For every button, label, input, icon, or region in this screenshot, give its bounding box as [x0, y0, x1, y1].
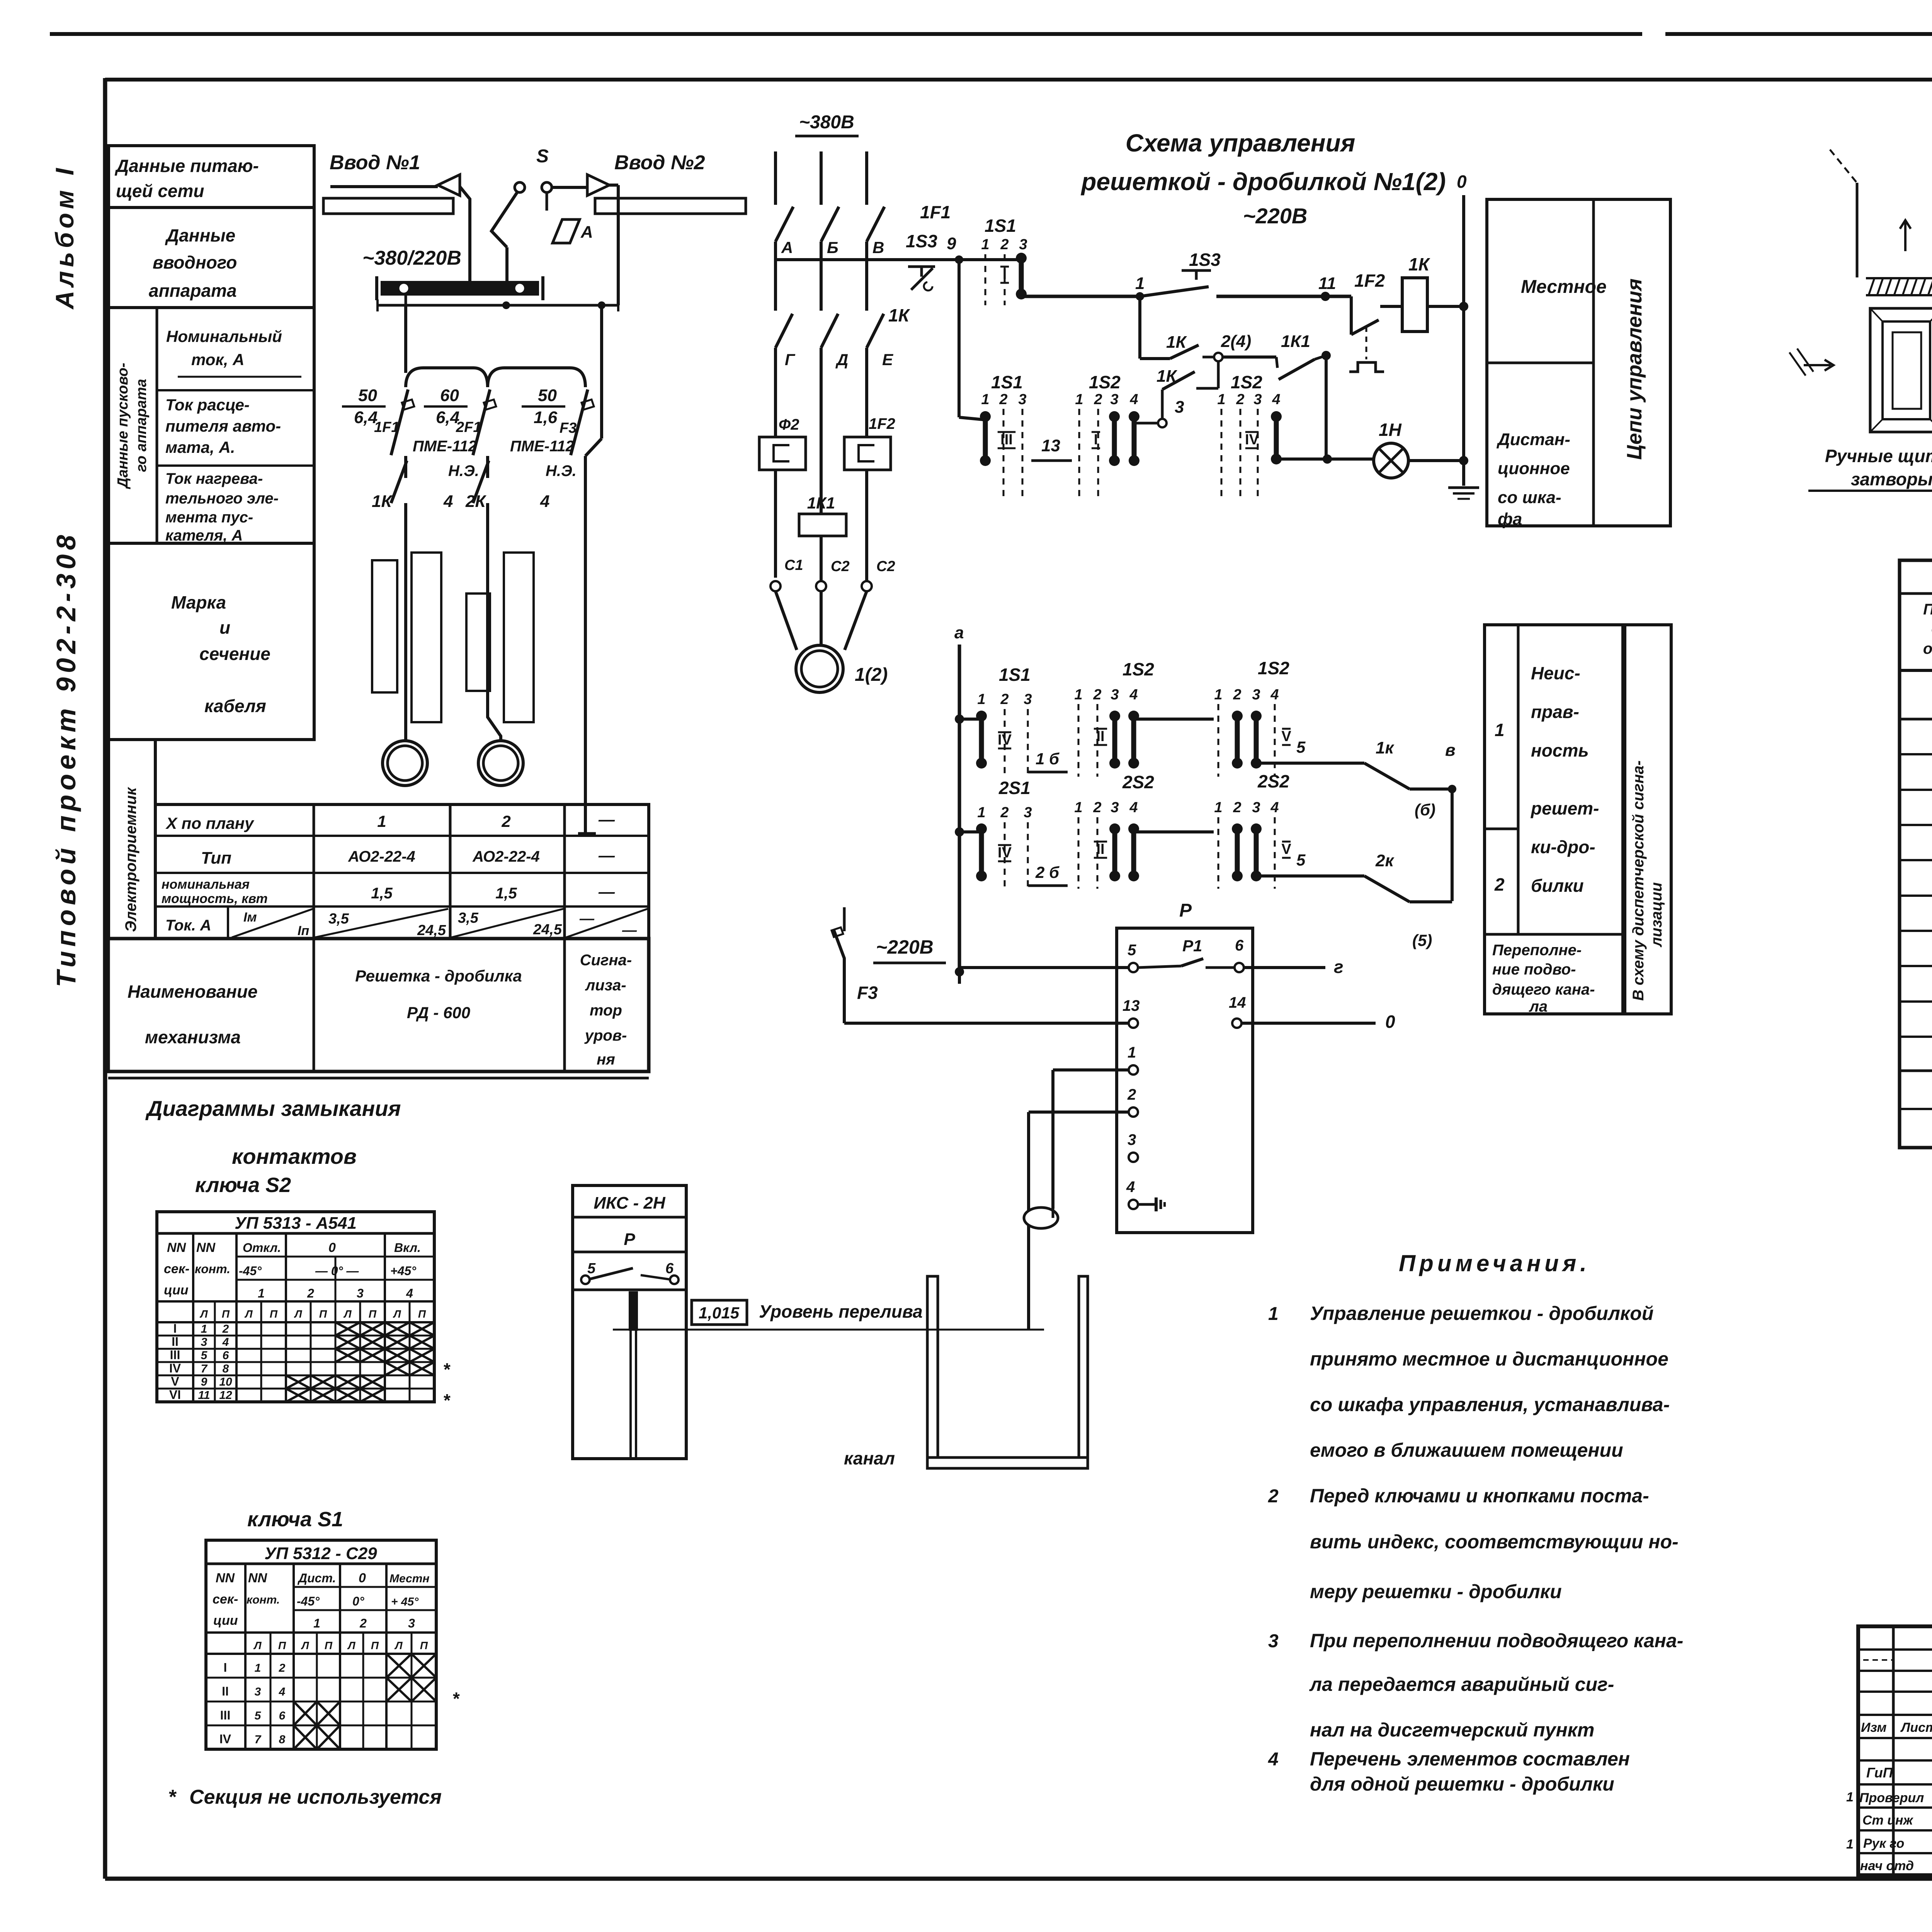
- svg-text:0: 0: [359, 1571, 366, 1585]
- svg-text:вить индекс, соответствующ: вить индекс, соответствующии но-: [1310, 1531, 1679, 1553]
- svg-text:3: 3: [1019, 236, 1027, 253]
- svg-text:3: 3: [255, 1685, 261, 1698]
- svg-text:4: 4: [1272, 391, 1280, 408]
- svg-text:1,5: 1,5: [371, 885, 393, 902]
- svg-text:ИКС - 2Н: ИКС - 2Н: [594, 1194, 665, 1213]
- svg-text:—: —: [598, 810, 615, 828]
- svg-text:Л: Л: [393, 1308, 401, 1320]
- svg-text:Наименование: Наименование: [128, 981, 258, 1002]
- svg-text:1: 1: [1268, 1304, 1279, 1324]
- svg-text:0°: 0°: [352, 1594, 364, 1608]
- svg-text:Л: Л: [244, 1308, 253, 1320]
- svg-text:3,5: 3,5: [458, 910, 479, 926]
- svg-text:-45°: -45°: [297, 1594, 320, 1608]
- svg-text:УП 5313 - А541: УП 5313 - А541: [235, 1214, 357, 1233]
- svg-text:РД - 600: РД - 600: [407, 1003, 470, 1022]
- svg-text:4: 4: [1270, 799, 1279, 816]
- svg-text:9: 9: [947, 234, 956, 253]
- svg-text:При переполнении подводяще: При переполнении подводящего кана-: [1310, 1630, 1683, 1651]
- svg-text:3: 3: [1253, 391, 1262, 408]
- svg-text:ционное: ционное: [1498, 459, 1570, 478]
- svg-text:I: I: [1003, 266, 1007, 282]
- svg-text:контактов: контактов: [232, 1144, 357, 1168]
- svg-text:10: 10: [219, 1376, 232, 1388]
- svg-text:конт.: конт.: [195, 1262, 230, 1276]
- svg-text:Е: Е: [882, 350, 894, 369]
- svg-text:4: 4: [540, 492, 549, 511]
- svg-text:ГиП: ГиП: [1866, 1765, 1893, 1781]
- svg-text:(б): (б): [1415, 801, 1435, 819]
- svg-text:6: 6: [1235, 937, 1244, 954]
- svg-text:NN: NN: [167, 1240, 187, 1255]
- svg-text:обознач: обознач: [1923, 640, 1932, 657]
- svg-text:1: 1: [258, 1286, 265, 1300]
- svg-text:3: 3: [1024, 804, 1032, 821]
- svg-text:8: 8: [223, 1362, 229, 1375]
- svg-text:3: 3: [1268, 1631, 1279, 1651]
- svg-text:II: II: [222, 1684, 229, 1698]
- svg-text:Д: Д: [835, 350, 848, 369]
- svg-text:АО2-22-4: АО2-22-4: [472, 848, 540, 865]
- svg-text:(5): (5): [1412, 931, 1432, 949]
- svg-text:*: *: [169, 1786, 177, 1808]
- svg-text:2(4): 2(4): [1221, 332, 1251, 351]
- svg-text:Рук го: Рук го: [1863, 1836, 1904, 1851]
- svg-text:Типовой проект 902-2-308: Типовой проект 902-2-308: [51, 531, 81, 987]
- svg-text:ла: ла: [1529, 998, 1548, 1015]
- svg-text:для одной решетки - дробил: для одной решетки - дробилки: [1310, 1773, 1614, 1795]
- svg-text:2: 2: [1268, 1486, 1279, 1507]
- svg-text:NN: NN: [216, 1571, 235, 1585]
- svg-text:1S2: 1S2: [1231, 372, 1262, 392]
- svg-text:1: 1: [977, 691, 985, 707]
- svg-text:С1: С1: [784, 557, 803, 573]
- svg-text:1К1: 1К1: [1281, 332, 1310, 351]
- svg-text:Ручные щитовые: Ручные щитовые: [1825, 446, 1932, 466]
- svg-text:канал: канал: [844, 1448, 895, 1468]
- svg-text:Н.Э.: Н.Э.: [546, 463, 577, 480]
- svg-text:ции: ции: [164, 1283, 189, 1298]
- svg-text:1: 1: [313, 1616, 320, 1630]
- svg-text:П: П: [222, 1308, 230, 1320]
- svg-text:2: 2: [279, 1662, 286, 1674]
- svg-text:*: *: [453, 1689, 460, 1709]
- svg-text:1S2: 1S2: [1122, 659, 1154, 679]
- svg-text:1: 1: [1128, 1044, 1136, 1061]
- svg-text:1F2: 1F2: [869, 415, 895, 432]
- svg-text:и: и: [219, 617, 230, 638]
- svg-text:II: II: [1096, 841, 1104, 857]
- svg-text:7: 7: [201, 1362, 208, 1375]
- svg-text:9: 9: [201, 1376, 207, 1388]
- svg-text:кателя, А: кателя, А: [165, 527, 243, 544]
- svg-text:2К: 2К: [465, 492, 486, 511]
- svg-text:сек-: сек-: [213, 1592, 238, 1607]
- svg-text:IV: IV: [998, 732, 1012, 748]
- svg-text:Ввод №1: Ввод №1: [330, 151, 420, 174]
- svg-text:ции: ции: [213, 1613, 238, 1628]
- svg-text:2S2: 2S2: [1122, 772, 1154, 792]
- svg-text:ла передается аварийный: ла передается аварийный сиг-: [1309, 1673, 1614, 1695]
- svg-text:1К: 1К: [1408, 254, 1430, 274]
- svg-text:Л: Л: [301, 1639, 309, 1651]
- svg-text:Неис-: Неис-: [1531, 663, 1580, 683]
- svg-text:V: V: [171, 1374, 179, 1388]
- svg-text:2: 2: [1094, 391, 1102, 408]
- svg-text:IV: IV: [169, 1361, 181, 1375]
- svg-text:2: 2: [501, 812, 510, 830]
- svg-text:фа: фа: [1498, 510, 1522, 529]
- svg-text:ПМЕ-112: ПМЕ-112: [413, 438, 477, 455]
- svg-text:F3: F3: [560, 420, 577, 436]
- svg-text:П: П: [418, 1308, 426, 1320]
- svg-text:Л: Л: [347, 1639, 355, 1651]
- svg-text:П: П: [270, 1308, 278, 1320]
- svg-text:А: А: [781, 238, 793, 257]
- svg-text:3: 3: [1110, 391, 1118, 408]
- svg-text:5: 5: [201, 1349, 208, 1362]
- svg-text:решет-: решет-: [1530, 798, 1599, 818]
- svg-text:5: 5: [1296, 738, 1306, 756]
- svg-text:50: 50: [538, 386, 557, 405]
- svg-text:Iм: Iм: [243, 910, 257, 925]
- svg-text:4: 4: [1268, 1749, 1279, 1770]
- svg-text:аппарата: аппарата: [149, 281, 237, 301]
- svg-text:Секция не используется: Секция не используется: [189, 1786, 442, 1808]
- svg-text:1,015: 1,015: [699, 1304, 740, 1322]
- svg-text:F3: F3: [857, 983, 878, 1003]
- svg-text:1К: 1К: [888, 305, 910, 325]
- svg-text:ня: ня: [597, 1051, 615, 1068]
- svg-text:1,6: 1,6: [534, 408, 558, 427]
- svg-text:а: а: [954, 623, 964, 642]
- svg-text:П: П: [278, 1639, 286, 1651]
- svg-text:2: 2: [1233, 799, 1241, 816]
- svg-text:2S2: 2S2: [1257, 771, 1289, 791]
- svg-text:1: 1: [981, 236, 989, 253]
- svg-text:~380/220В: ~380/220В: [362, 247, 461, 269]
- svg-text:Откл.: Откл.: [243, 1241, 281, 1255]
- svg-text:П: П: [371, 1639, 379, 1651]
- svg-text:нал на дисгетчерский пун: нал на дисгетчерский пункт: [1310, 1719, 1594, 1741]
- svg-text:ключа S1: ключа S1: [247, 1508, 343, 1531]
- svg-text:П: П: [369, 1308, 377, 1320]
- svg-text:Х по плану: Х по плану: [165, 814, 255, 832]
- svg-text:2: 2: [1000, 236, 1009, 253]
- svg-text:13: 13: [1041, 436, 1060, 455]
- svg-text:УП 5312 - С29: УП 5312 - С29: [264, 1544, 377, 1563]
- svg-text:IV: IV: [219, 1732, 231, 1746]
- svg-text:—: —: [622, 922, 637, 939]
- svg-text:1К: 1К: [1166, 333, 1187, 352]
- svg-text:го аппарата: го аппарата: [133, 379, 150, 472]
- svg-text:~220В: ~220В: [1243, 204, 1308, 228]
- svg-text:со шка-: со шка-: [1498, 488, 1561, 507]
- svg-text:4: 4: [1129, 687, 1138, 703]
- svg-text:— 0° —: — 0° —: [315, 1264, 359, 1278]
- svg-text:V: V: [1281, 728, 1291, 745]
- svg-text:мента пус-: мента пус-: [165, 509, 253, 526]
- svg-text:1S1: 1S1: [985, 216, 1016, 236]
- svg-text:3: 3: [201, 1336, 207, 1349]
- svg-text:1(2): 1(2): [855, 665, 888, 685]
- svg-text:2: 2: [1000, 691, 1009, 707]
- svg-text:Уровень перелива: Уровень перелива: [759, 1301, 923, 1321]
- svg-text:4: 4: [1126, 1179, 1135, 1196]
- svg-text:5: 5: [1128, 942, 1136, 959]
- svg-text:1F1: 1F1: [920, 202, 951, 222]
- svg-text:ключа S2: ключа S2: [195, 1173, 291, 1197]
- svg-text:принято местное и дистан: принято местное и дистанционное: [1310, 1348, 1668, 1370]
- svg-text:2: 2: [222, 1323, 229, 1335]
- svg-text:конт.: конт.: [247, 1594, 280, 1606]
- svg-text:5: 5: [1296, 851, 1306, 869]
- svg-text:Проверил: Проверил: [1859, 1791, 1924, 1805]
- svg-text:прав-: прав-: [1531, 702, 1579, 722]
- svg-text:60: 60: [440, 386, 459, 405]
- svg-text:дящего кана-: дящего кана-: [1492, 981, 1595, 998]
- svg-text:2: 2: [999, 391, 1007, 408]
- svg-text:С2: С2: [876, 558, 895, 575]
- svg-text:2: 2: [1093, 799, 1101, 816]
- svg-text:1S3: 1S3: [906, 231, 937, 251]
- svg-text:3: 3: [357, 1286, 364, 1300]
- svg-text:Л: Л: [394, 1639, 403, 1651]
- svg-text:ПМЕ-112: ПМЕ-112: [510, 438, 574, 455]
- svg-text:3,5: 3,5: [328, 911, 349, 927]
- svg-text:Данные пусково-: Данные пусково-: [115, 363, 131, 489]
- svg-text:—: —: [579, 911, 595, 927]
- svg-text:1F2: 1F2: [1354, 270, 1385, 291]
- svg-text:меру решетки - дробилки: меру решетки - дробилки: [1310, 1581, 1562, 1602]
- svg-text:Решетка - дробилка: Решетка - дробилка: [355, 967, 522, 985]
- svg-text:3: 3: [408, 1616, 415, 1630]
- svg-text:Данные питаю-: Данные питаю-: [114, 156, 259, 176]
- svg-text:С2: С2: [831, 558, 850, 575]
- svg-text:1: 1: [1846, 1790, 1854, 1804]
- svg-text:сек-: сек-: [164, 1262, 189, 1276]
- svg-text:Л: Л: [253, 1639, 262, 1651]
- svg-text:1: 1: [1074, 799, 1082, 816]
- svg-text:Примечания.: Примечания.: [1399, 1250, 1590, 1276]
- svg-text:Р: Р: [1179, 900, 1192, 921]
- svg-text:Р: Р: [624, 1230, 635, 1249]
- svg-text:1: 1: [1214, 687, 1222, 703]
- svg-text:Н.Э.: Н.Э.: [448, 463, 479, 480]
- svg-text:В схему диспетчерской сигна-: В схему диспетчерской сигна-: [1630, 760, 1647, 1001]
- svg-text:ность: ность: [1531, 740, 1589, 760]
- svg-text:1: 1: [377, 812, 386, 830]
- svg-text:NN: NN: [196, 1240, 216, 1255]
- svg-text:2 б: 2 б: [1035, 863, 1060, 881]
- svg-text:Изм: Изм: [1861, 1720, 1887, 1735]
- svg-text:II: II: [172, 1335, 179, 1349]
- svg-text:1: 1: [1214, 799, 1222, 816]
- svg-text:2: 2: [1233, 687, 1241, 703]
- svg-text:IV: IV: [998, 845, 1012, 861]
- svg-text:Ст инж: Ст инж: [1862, 1813, 1914, 1828]
- svg-text:*: *: [444, 1359, 451, 1379]
- svg-text:Ток. А: Ток. А: [165, 917, 211, 934]
- svg-text:А: А: [580, 223, 593, 241]
- svg-text:2: 2: [1494, 874, 1505, 895]
- svg-text:тор: тор: [590, 1002, 622, 1019]
- svg-text:3: 3: [1252, 799, 1260, 816]
- svg-text:1: 1: [1075, 391, 1083, 408]
- svg-text:0: 0: [1457, 172, 1467, 192]
- svg-text:Л: Л: [294, 1308, 302, 1320]
- svg-text:1: 1: [201, 1323, 207, 1335]
- svg-text:Местн: Местн: [389, 1572, 430, 1585]
- svg-text:12: 12: [219, 1389, 232, 1401]
- svg-text:II: II: [1096, 728, 1104, 745]
- svg-text:4: 4: [279, 1685, 286, 1698]
- svg-text:VI: VI: [169, 1388, 181, 1401]
- svg-text:1Н: 1Н: [1379, 420, 1402, 440]
- svg-text:кабеля: кабеля: [204, 696, 266, 716]
- svg-text:Л: Л: [343, 1308, 352, 1320]
- svg-text:2: 2: [1093, 687, 1101, 703]
- svg-text:+45°: +45°: [390, 1264, 416, 1278]
- svg-text:Ф2: Ф2: [779, 416, 799, 433]
- svg-text:0: 0: [328, 1240, 336, 1255]
- svg-text:затворы: затворы: [1851, 469, 1932, 489]
- svg-text:11: 11: [198, 1389, 210, 1401]
- svg-text:1: 1: [1217, 391, 1225, 408]
- svg-text:Тип: Тип: [201, 849, 231, 867]
- svg-text:тельного эле-: тельного эле-: [165, 490, 279, 507]
- svg-text:емого в ближаишем помеще: емого в ближаишем помещении: [1310, 1439, 1623, 1461]
- svg-text:Управление решеткои - дроб: Управление решеткои - дробилкой: [1310, 1303, 1653, 1324]
- svg-text:6: 6: [223, 1349, 229, 1362]
- svg-text:ток, А: ток, А: [191, 350, 244, 369]
- svg-text:Дист.: Дист.: [297, 1571, 336, 1585]
- svg-text:лизации: лизации: [1648, 882, 1665, 947]
- svg-text:1: 1: [977, 804, 985, 821]
- svg-text:14: 14: [1229, 994, 1246, 1011]
- svg-text:24,5: 24,5: [533, 922, 562, 938]
- svg-text:1: 1: [1135, 274, 1145, 293]
- svg-text:Iп: Iп: [298, 923, 309, 938]
- svg-text:NN: NN: [248, 1571, 268, 1585]
- svg-text:—: —: [598, 883, 615, 901]
- svg-text:Марка: Марка: [171, 592, 226, 612]
- svg-text:5: 5: [255, 1709, 262, 1722]
- svg-text:ки-дро-: ки-дро-: [1531, 837, 1595, 857]
- svg-text:4: 4: [406, 1286, 413, 1300]
- svg-text:~220В: ~220В: [876, 936, 934, 958]
- svg-text:2: 2: [1000, 804, 1009, 821]
- svg-text:Перечень элементов составл: Перечень элементов составлен: [1310, 1748, 1630, 1770]
- svg-text:1К: 1К: [372, 492, 393, 511]
- svg-text:Номинальный: Номинальный: [166, 327, 282, 345]
- svg-text:1К1: 1К1: [807, 494, 835, 512]
- svg-text:—: —: [598, 846, 615, 864]
- svg-text:3: 3: [1252, 687, 1260, 703]
- svg-text:Альбом I: Альбом I: [50, 164, 79, 310]
- svg-text:Цепи управления: Цепи управления: [1623, 279, 1646, 460]
- svg-text:Ввод №2: Ввод №2: [614, 151, 705, 174]
- svg-text:3: 3: [1024, 691, 1032, 707]
- svg-text:Диаграммы замыкания: Диаграммы замыкания: [145, 1096, 401, 1121]
- svg-text:S: S: [536, 146, 549, 167]
- svg-text:4: 4: [443, 492, 453, 511]
- svg-text:Переполне-: Переполне-: [1492, 942, 1582, 959]
- svg-text:1: 1: [1846, 1837, 1854, 1852]
- svg-text:Ток нагрева-: Ток нагрева-: [165, 470, 263, 487]
- svg-text:4: 4: [1270, 687, 1279, 703]
- svg-text:2: 2: [1236, 391, 1244, 408]
- svg-text:лиза-: лиза-: [585, 977, 626, 994]
- svg-text:сечение: сечение: [199, 644, 270, 664]
- svg-text:2: 2: [1127, 1086, 1136, 1103]
- svg-text:4: 4: [1129, 799, 1138, 816]
- svg-text:6: 6: [279, 1709, 286, 1722]
- svg-text:~380В: ~380В: [799, 112, 854, 133]
- svg-text:В: В: [872, 238, 884, 257]
- svg-text:50: 50: [358, 386, 377, 405]
- svg-text:1: 1: [1495, 720, 1505, 740]
- svg-text:Дистан-: Дистан-: [1496, 430, 1570, 449]
- svg-text:I: I: [1094, 432, 1098, 448]
- svg-text:1: 1: [1074, 687, 1082, 703]
- svg-text:со шкафа управления, устан: со шкафа управления, устанавлива-: [1310, 1394, 1670, 1415]
- svg-text:*: *: [444, 1390, 451, 1410]
- svg-text:7: 7: [255, 1733, 262, 1746]
- svg-text:г: г: [1334, 957, 1344, 977]
- svg-text:2к: 2к: [1375, 851, 1395, 870]
- svg-text:уров-: уров-: [584, 1027, 627, 1044]
- svg-text:24,5: 24,5: [417, 922, 446, 939]
- svg-text:мата, А.: мата, А.: [165, 438, 235, 456]
- svg-text:Позици-: Позици-: [1923, 601, 1932, 618]
- svg-text:Перед ключами и кнопками: Перед ключами и кнопками поста-: [1310, 1485, 1649, 1507]
- svg-text:3: 3: [1111, 799, 1119, 816]
- svg-text:-45°: -45°: [239, 1264, 262, 1278]
- svg-text:1,5: 1,5: [495, 885, 517, 902]
- svg-text:Л: Л: [199, 1308, 208, 1320]
- svg-text:3: 3: [1175, 398, 1184, 417]
- svg-text:Г: Г: [785, 350, 796, 369]
- svg-text:вводного: вводного: [153, 252, 237, 272]
- svg-text:П: П: [420, 1639, 428, 1651]
- svg-text:I: I: [173, 1321, 177, 1335]
- svg-text:билки: билки: [1531, 876, 1584, 896]
- svg-text:Схема управления: Схема управления: [1126, 129, 1355, 157]
- svg-text:III: III: [170, 1348, 180, 1362]
- svg-text:3: 3: [1111, 687, 1119, 703]
- svg-text:3: 3: [1128, 1131, 1136, 1148]
- svg-text:6: 6: [665, 1260, 674, 1277]
- svg-text:1S2: 1S2: [1258, 658, 1289, 678]
- svg-text:0: 0: [1385, 1012, 1395, 1032]
- svg-text:щей сети: щей сети: [116, 181, 204, 201]
- svg-text:1: 1: [981, 391, 989, 408]
- svg-text:в: в: [1445, 741, 1456, 760]
- svg-text:Р1: Р1: [1182, 937, 1202, 955]
- svg-text:П: П: [325, 1639, 333, 1651]
- svg-text:Б: Б: [827, 238, 838, 257]
- svg-text:П: П: [319, 1308, 327, 1320]
- svg-text:3: 3: [1018, 391, 1026, 408]
- svg-text:11: 11: [1318, 274, 1336, 293]
- svg-text:1S3: 1S3: [1189, 250, 1221, 270]
- svg-text:1S1: 1S1: [991, 372, 1023, 392]
- svg-text:решеткой - дробилкой №1(2): решеткой - дробилкой №1(2): [1080, 168, 1446, 196]
- svg-text:1F1: 1F1: [374, 419, 399, 435]
- svg-text:ние подво-: ние подво-: [1492, 961, 1576, 978]
- svg-text:Данные: Данные: [165, 225, 235, 245]
